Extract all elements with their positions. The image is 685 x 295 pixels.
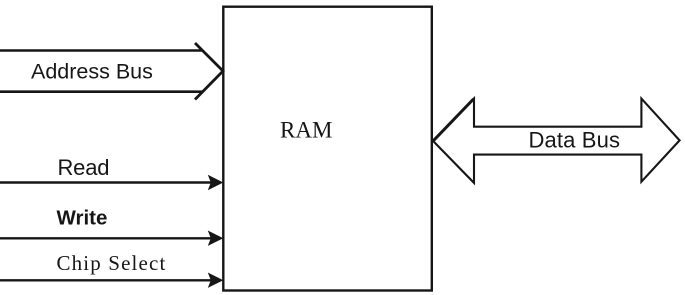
svg-text:Address Bus: Address Bus xyxy=(31,60,153,84)
svg-text:Write: Write xyxy=(57,207,108,230)
svg-text:Read: Read xyxy=(58,155,110,180)
svg-text:Chip Select: Chip Select xyxy=(57,251,166,275)
svg-text:RAM: RAM xyxy=(280,118,332,143)
svg-text:Data Bus: Data Bus xyxy=(529,128,621,153)
